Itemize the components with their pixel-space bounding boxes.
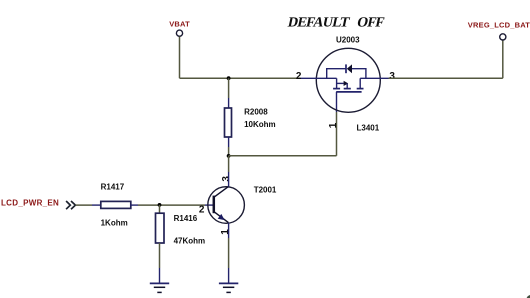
svg-text:3: 3: [221, 176, 232, 182]
svg-text:VBAT: VBAT: [169, 19, 190, 28]
svg-text:R1417: R1417: [101, 182, 125, 191]
svg-text:1Kohm: 1Kohm: [101, 218, 128, 227]
svg-text:U2003: U2003: [336, 35, 360, 44]
wire port to R1417: [76, 204, 93, 206]
svg-text:L3401: L3401: [357, 123, 380, 132]
wire VBAT down: [179, 37, 181, 79]
svg-text:LCD_PWR_EN: LCD_PWR_EN: [1, 198, 59, 207]
mosfet gate line: [336, 91, 361, 93]
ground (right): [219, 283, 238, 292]
node junction gate branch: [227, 154, 231, 158]
ground (left): [150, 283, 169, 292]
svg-text:T2001: T2001: [254, 185, 277, 194]
power flag VREG_LCD_BAT: [468, 20, 530, 40]
power flag VBAT: [169, 19, 190, 36]
resistor R1417: [101, 182, 131, 227]
wire base stub: [205, 204, 214, 206]
svg-text:10Kohm: 10Kohm: [244, 120, 276, 129]
mosfet channel dash middle: [344, 88, 351, 90]
transistor emitter arrow: [218, 214, 225, 220]
wire gate branch vertical: [336, 112, 338, 156]
body diode bar: [345, 64, 347, 73]
wire R2008 bottom: [228, 137, 230, 147]
port chevron: [66, 201, 75, 209]
resistor R1416: [156, 213, 206, 246]
transistor emitter diagonal: [214, 212, 229, 223]
mosfet drain contact: [336, 78, 338, 88]
pin 2 stub MOSFET: [300, 77, 337, 79]
transistor base bar: [213, 196, 216, 214]
body diode triangle: [347, 64, 352, 73]
mosfet channel dash left: [333, 88, 340, 90]
wire gate branch horizontal: [229, 155, 337, 157]
svg-text:2: 2: [199, 205, 205, 216]
svg-text:R1416: R1416: [174, 214, 198, 223]
node junction base: [158, 203, 162, 207]
svg-text:1: 1: [328, 122, 339, 128]
wire R1417 to junction: [130, 204, 138, 206]
svg-text:3: 3: [389, 71, 395, 82]
wire top rail right: [389, 77, 503, 79]
wire R1416 top: [159, 205, 161, 213]
wire VREG down: [502, 40, 504, 78]
mosfet left riser: [327, 69, 346, 79]
svg-text:DEFAULTOFF: DEFAULTOFF: [286, 15, 385, 31]
wire R1416 bottom: [159, 243, 161, 268]
wire R2008 top: [228, 78, 230, 98]
wire top rail left: [180, 77, 301, 79]
mosfet right top wire: [352, 69, 366, 79]
mosfet substrate arrow: [337, 81, 349, 89]
mosfet U2003 body circle: [316, 48, 380, 112]
svg-text:2: 2: [296, 71, 302, 82]
svg-text:VREG_LCD_BAT: VREG_LCD_BAT: [468, 20, 530, 29]
resistor R2008: [225, 108, 276, 137]
mosfet channel dash right: [357, 88, 364, 90]
transistor collector diagonal: [214, 187, 229, 198]
mosfet source contact: [359, 78, 361, 88]
pin 3 stub MOSFET: [360, 77, 388, 79]
svg-text:R2008: R2008: [244, 108, 268, 117]
wire emitter down: [228, 223, 230, 238]
node junction top rail: [227, 76, 231, 80]
wire fragment bottom-right corner: [526, 295, 530, 298]
transistor T2001 circle: [208, 187, 245, 224]
wire collector up: [228, 156, 230, 172]
svg-text:47Kohm: 47Kohm: [174, 237, 206, 246]
